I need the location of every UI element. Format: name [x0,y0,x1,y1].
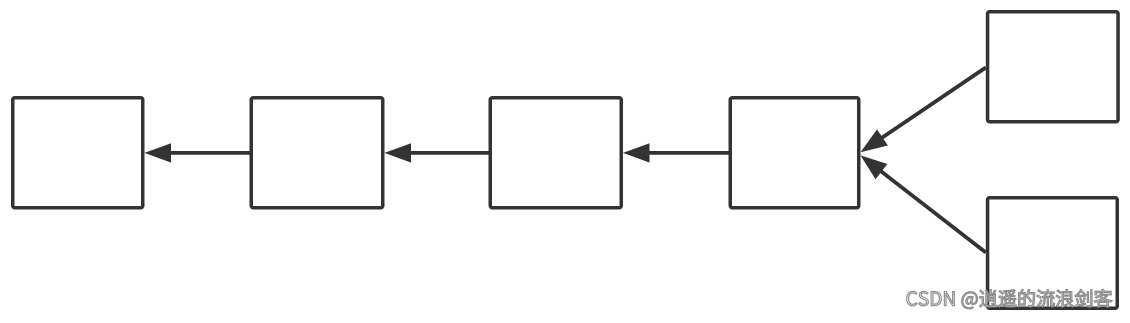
box 3 [490,98,621,208]
box 4 [730,98,859,208]
box 2 [251,98,383,208]
arrow box2 -> box1 [145,143,250,162]
watermark CSDN @逍遥的流浪剑客 [907,289,1112,309]
arrow box6 -> box4 (diagonal) [861,155,986,252]
box 6 (bottom right) [988,198,1118,309]
box 1 (head of list) [13,98,143,208]
arrow box3 -> box2 [385,143,489,162]
arrow box4 -> box3 [623,143,729,162]
box 5 (top right) [988,12,1119,122]
arrow box5 -> box4 (diagonal) [861,68,986,153]
